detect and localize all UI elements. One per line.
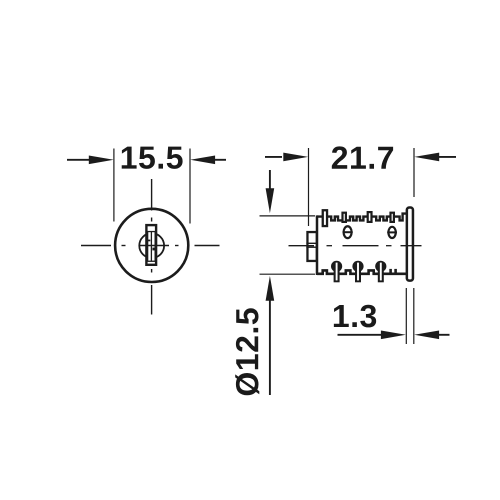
body bottom edge (castellated) [317, 270, 407, 273]
side view center line (dash-dot) [289, 245, 422, 247]
extension line left [308, 148, 310, 226]
left arrow [67, 159, 90, 161]
bottom pin 1 [331, 261, 342, 283]
keyhole outer rect [146, 225, 156, 265]
right arrow [414, 153, 439, 162]
flange (rear cam disc) [407, 208, 413, 281]
body left edge [316, 215, 319, 275]
top arrow (down) [269, 170, 271, 190]
label 1.3 [334, 305, 376, 328]
extension line top [260, 215, 316, 217]
bottom arrow (up) with long tail [266, 276, 275, 301]
outer circle (cylinder face) [115, 209, 188, 282]
horizontal center line (dash-dot) [81, 245, 220, 247]
nose inner line 1 [306, 242, 317, 244]
top pin 1 (tall tab) [323, 210, 327, 226]
bottom edge double bump near flange [389, 269, 392, 274]
bottom pin 2 [352, 261, 363, 283]
inner circle (plug) [139, 233, 164, 258]
extension line right [189, 149, 191, 224]
bottom pin 3 [375, 261, 386, 283]
label 15.5 [122, 147, 183, 169]
label Ø12.5 (rotated) [235, 308, 259, 395]
extension line right [413, 148, 415, 197]
label 21.7 [332, 146, 393, 168]
key profile center line [150, 232, 152, 261]
extension line bottom [260, 273, 316, 275]
screw theta 1 [344, 226, 352, 238]
top pin 3 [368, 212, 372, 222]
body top edge (castellated) [317, 214, 407, 221]
right arrow [190, 156, 215, 165]
right arrow [414, 331, 439, 340]
keyhole inner rect [148, 232, 156, 262]
left arrow [265, 156, 282, 158]
top pin 4 [391, 213, 394, 222]
key profile jog left [147, 240, 151, 242]
nose inner line 2 [306, 246, 317, 248]
extension line right [413, 288, 415, 344]
vertical center line (dash-dot) [151, 179, 153, 315]
screw theta 2 [388, 227, 395, 238]
extension line left [113, 149, 115, 222]
key profile jog right [152, 248, 155, 251]
top pin 2 [343, 213, 346, 222]
left arrow [338, 334, 383, 336]
nose (key entry collar) [307, 232, 316, 261]
extension line left [405, 288, 407, 344]
